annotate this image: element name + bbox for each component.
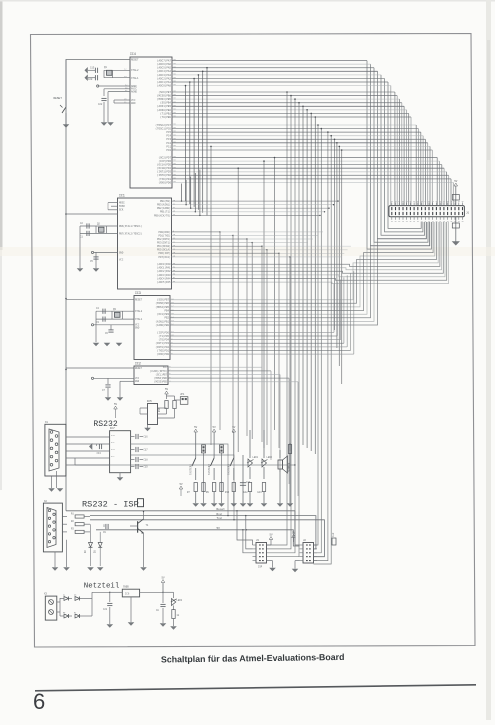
bus line Rxd <box>90 516 316 549</box>
DB9 shield grounds <box>51 476 53 488</box>
svg-text:(MOSI)PB5: (MOSI)PB5 <box>155 306 169 309</box>
svg-text:(TXD)PD1: (TXD)PD1 <box>159 177 172 181</box>
svg-text:IC5: IC5 <box>147 400 152 403</box>
svg-text:5V: 5V <box>179 483 183 486</box>
svg-text:40: 40 <box>406 221 408 223</box>
cap C21 <box>92 591 110 593</box>
wire taps PC rows descending bundle to J2 <box>314 125 319 545</box>
svg-text:5V: 5V <box>114 403 118 406</box>
IC5 left wires <box>140 407 148 409</box>
svg-text:IC4: IC4 <box>130 52 136 56</box>
resistor R20 column <box>289 443 291 455</box>
svg-text:(T1)PB1: (T1)PB1 <box>160 111 171 115</box>
svg-text:D7: D7 <box>74 611 76 614</box>
ISP section grounds <box>52 568 57 571</box>
svg-text:LED2: LED2 <box>267 456 273 459</box>
svg-text:MOSI: MOSI <box>119 202 125 205</box>
zener diodes D2 D3 <box>90 524 92 542</box>
svg-text:40: 40 <box>450 221 452 223</box>
wires DB9 to MAX232 <box>66 436 110 438</box>
wire RESET net from IC4 <box>66 60 130 108</box>
svg-text:PC5: PC5 <box>166 131 171 134</box>
svg-text:MISO: MISO <box>119 205 125 208</box>
svg-text:(INT0)PD2: (INT0)PD2 <box>155 346 169 349</box>
svg-text:RESET: RESET <box>135 299 143 302</box>
svg-text:C1+: C1+ <box>111 434 116 437</box>
svg-text:39: 39 <box>406 201 408 203</box>
svg-text:XTAL1: XTAL1 <box>131 77 139 80</box>
MAX232 ground <box>119 473 121 477</box>
crystal circuit Q1 C15 C20 <box>104 69 130 71</box>
svg-text:(ADC7)PA7: (ADC7)PA7 <box>157 59 171 63</box>
svg-text:VCC: VCC <box>119 258 124 261</box>
svg-text:39: 39 <box>462 201 464 203</box>
svg-text:(SCK)PB7: (SCK)PB7 <box>157 299 170 302</box>
svg-text:C2+: C2+ <box>111 448 116 451</box>
crystal Q1 <box>107 70 113 75</box>
svg-text:PD2(INT0): PD2(INT0) <box>157 238 171 241</box>
svg-text:C20: C20 <box>88 78 93 81</box>
svg-text:XTAL2: XTAL2 <box>135 310 143 313</box>
svg-text:5V: 5V <box>232 426 236 429</box>
svg-text:(SS)PB4: (SS)PB4 <box>160 101 171 105</box>
svg-text:C17: C17 <box>144 449 149 452</box>
svg-text:39: 39 <box>424 201 426 203</box>
svg-text:VCC: VCC <box>163 366 168 369</box>
jumper JP4 pins <box>220 445 224 453</box>
svg-text:E13: E13 <box>258 491 263 494</box>
svg-text:39: 39 <box>439 201 441 203</box>
svg-text:J1: J1 <box>466 211 470 214</box>
J2 ground <box>295 560 300 562</box>
svg-text:GND: GND <box>135 327 140 330</box>
bus line 5V <box>96 530 300 546</box>
svg-text:40: 40 <box>391 221 393 223</box>
svg-text:5V: 5V <box>454 180 458 183</box>
svg-text:PB2: PB2 <box>164 317 169 320</box>
svg-text:Reset: Reset <box>217 508 226 511</box>
schematic frame <box>31 34 476 648</box>
svg-text:(ADC4)PA4: (ADC4)PA4 <box>157 69 171 73</box>
svg-text:5V: 5V <box>194 426 198 429</box>
svg-text:(T0)PB0: (T0)PB0 <box>160 115 171 119</box>
svg-text:39: 39 <box>450 201 452 203</box>
svg-text:7805: 7805 <box>123 586 129 589</box>
svg-text:5V: 5V <box>217 527 221 530</box>
IC1 mid pins feeding down bundles <box>172 231 221 233</box>
MAX232 TTL side wires to bus <box>131 444 228 516</box>
svg-text:40: 40 <box>398 221 400 223</box>
svg-text:39: 39 <box>458 201 460 203</box>
svg-text:Netzteil: Netzteil <box>84 583 120 591</box>
svg-text:39: 39 <box>395 201 397 203</box>
svg-text:1x2: 1x2 <box>332 532 335 537</box>
J3 5V arrow <box>269 537 273 540</box>
IC IC5 optocoupler box <box>148 404 158 425</box>
svg-text:39: 39 <box>435 201 437 203</box>
svg-text:C18: C18 <box>144 459 149 462</box>
svg-text:(OC1B)PD4: (OC1B)PD4 <box>157 166 171 170</box>
svg-text:PD6(ICP): PD6(ICP) <box>158 252 171 255</box>
wire RESET vertical rail <box>65 60 67 511</box>
bus line Reset <box>66 511 300 545</box>
IC IC3 AT90S2313 box <box>134 296 170 360</box>
svg-text:5V: 5V <box>292 532 296 535</box>
switch TASTER2 <box>210 458 214 466</box>
cap C13 <box>96 444 98 446</box>
svg-text:40: 40 <box>428 221 430 223</box>
resistors R1 R2 R3 <box>62 516 67 518</box>
svg-text:PB1(T1): PB1(T1) <box>160 211 171 214</box>
svg-text:(SCL)PB7: (SCL)PB7 <box>156 373 168 376</box>
svg-text:(ICP)PD6: (ICP)PD6 <box>157 331 170 334</box>
switch TASTER1 <box>192 458 196 466</box>
5V arrow near IC2 <box>114 406 118 409</box>
connector X2 DB9 ISP <box>43 503 62 552</box>
svg-text:PC0: PC0 <box>166 149 171 152</box>
svg-text:(AIN1)PB1: (AIN1)PB1 <box>155 320 169 323</box>
resistor R7 <box>194 483 197 492</box>
svg-text:C13: C13 <box>97 452 102 455</box>
svg-text:40: 40 <box>413 221 415 223</box>
svg-text:XTAL1: XTAL1 <box>135 318 143 321</box>
svg-text:5V: 5V <box>165 388 169 391</box>
svg-text:(AIN0)PB0: (AIN0)PB0 <box>155 324 169 327</box>
connector J2 <box>303 543 314 564</box>
resistors R15 R16 pullups <box>165 391 169 394</box>
svg-text:GND: GND <box>119 251 124 254</box>
svg-text:40: 40 <box>421 221 423 223</box>
svg-text:RESET: RESET <box>135 367 143 370</box>
svg-text:C21: C21 <box>103 608 108 611</box>
svg-text:5V: 5V <box>269 534 273 537</box>
svg-text:39: 39 <box>421 201 423 203</box>
IC1 top pins rising to IC4 rows and right to taps <box>172 200 339 202</box>
J1 ground wire below <box>455 217 457 242</box>
svg-text:(ADC3)PA3: (ADC3)PA3 <box>157 274 171 277</box>
svg-text:TASTER2: TASTER2 <box>208 464 211 475</box>
5V arrows above switches <box>194 429 198 432</box>
svg-text:PC4: PC4 <box>166 135 171 138</box>
svg-text:40: 40 <box>443 221 445 223</box>
svg-text:(AIN0)PB2: (AIN0)PB2 <box>157 108 171 112</box>
svg-text:PC3: PC3 <box>166 138 171 141</box>
IC IC6 7805 regulator <box>122 589 139 597</box>
svg-text:PD3(INT1): PD3(INT1) <box>157 242 171 245</box>
svg-text:XTAL2: XTAL2 <box>131 69 139 72</box>
svg-text:PD0(RXD): PD0(RXD) <box>158 231 171 234</box>
svg-text:(MOSI)PB5: (MOSI)PB5 <box>157 97 171 101</box>
svg-text:39: 39 <box>402 201 404 203</box>
svg-text:40: 40 <box>409 221 411 223</box>
svg-text:40: 40 <box>462 221 464 223</box>
svg-text:IC3: IC3 <box>135 291 141 295</box>
transistor T1 <box>137 521 139 533</box>
IC3 bottom pin wires rising along ring verticals <box>170 331 334 333</box>
connector X1 DB9 RS232 <box>45 424 66 476</box>
svg-text:LED3: LED3 <box>177 599 183 602</box>
svg-text:39: 39 <box>432 201 434 203</box>
IC IC7 MAX232 box <box>110 431 131 473</box>
svg-text:Txd: Txd <box>217 516 222 520</box>
svg-text:LED1: LED1 <box>253 456 259 459</box>
svg-text:40: 40 <box>417 221 419 223</box>
cap C5 on IC1 VCC <box>91 251 93 253</box>
wire taps PA rows down to IC1 top pins <box>185 86 187 202</box>
svg-text:5V: 5V <box>213 426 217 429</box>
J1 5V feed and box <box>454 183 458 186</box>
svg-text:C2-: C2- <box>111 455 115 458</box>
IC1 bottom pins to outer rings <box>172 222 440 266</box>
svg-text:39: 39 <box>447 201 449 203</box>
svg-text:39: 39 <box>417 201 419 203</box>
svg-text:RESET: RESET <box>131 58 139 61</box>
IC3 left circuit crystal <box>66 299 134 301</box>
svg-text:SUMMER: SUMMER <box>288 462 291 472</box>
svg-text:40: 40 <box>439 221 441 223</box>
svg-text:(T0)PD4: (T0)PD4 <box>158 339 169 342</box>
J3 ground <box>267 560 273 562</box>
svg-text:(RXD)PD0: (RXD)PD0 <box>157 353 170 356</box>
svg-text:40: 40 <box>458 221 460 223</box>
svg-text:(T1)PD5: (T1)PD5 <box>158 335 169 338</box>
svg-text:PB7(XTAL2/TOSC2): PB7(XTAL2/TOSC2) <box>119 232 143 235</box>
bus line Txd <box>90 520 324 557</box>
svg-text:JP1: JP1 <box>180 393 185 396</box>
svg-text:(TOSC2)PC7: (TOSC2)PC7 <box>155 123 171 127</box>
IC1 left ISP pin stubs <box>108 202 118 204</box>
svg-text:(MISO)PB6: (MISO)PB6 <box>155 302 169 305</box>
caps C16 C17 C18 C19 charge pump <box>131 436 135 438</box>
regulator output to 5V <box>140 591 163 593</box>
J2 5V arrow <box>292 535 296 538</box>
svg-text:C22: C22 <box>98 103 103 106</box>
svg-text:39: 39 <box>443 201 445 203</box>
svg-text:(TXD)PD1: (TXD)PD1 <box>157 349 170 352</box>
wire DTR line to reset net <box>75 464 295 466</box>
cap C9 <box>103 524 105 527</box>
ground below reset switch <box>63 125 68 128</box>
svg-text:(MISO)PB5: (MISO)PB5 <box>154 381 167 384</box>
buzzer SUMMER <box>279 450 281 458</box>
IC IC2 box <box>134 366 168 385</box>
svg-text:(TOSC1)PC6: (TOSC1)PC6 <box>155 127 171 131</box>
svg-text:R13: R13 <box>225 491 230 494</box>
J1 pin ticks <box>391 207 393 210</box>
svg-text:PB6(XTAL1/TOSC1): PB6(XTAL1/TOSC1) <box>119 225 143 228</box>
jumper JP1 <box>180 397 188 405</box>
connector J3 <box>256 543 267 564</box>
svg-text:40: 40 <box>447 221 449 223</box>
svg-text:(ADC2)PA2: (ADC2)PA2 <box>157 76 171 80</box>
svg-text:C15: C15 <box>90 66 95 69</box>
svg-text:(ADC5)PA5: (ADC5)PA5 <box>157 281 171 284</box>
svg-text:(ADC6)PA6: (ADC6)PA6 <box>157 62 171 66</box>
svg-text:PB4(SS): PB4(SS) <box>160 200 171 203</box>
AREF node and C22 <box>99 85 130 87</box>
svg-text:PB0(XCK/T0): PB0(XCK/T0) <box>154 214 171 217</box>
LED3 power indicator <box>163 591 174 593</box>
switch TASTER3 <box>230 458 234 466</box>
svg-text:(INT1)PD3: (INT1)PD3 <box>155 342 169 345</box>
svg-text:39: 39 <box>391 201 393 203</box>
svg-text:AGND: AGND <box>131 91 138 94</box>
IC2 left wires <box>66 367 134 369</box>
svg-text:(INT0)PD2: (INT0)PD2 <box>157 173 171 177</box>
IC IC1 mega16 box <box>118 198 172 289</box>
IC4 right pin wires to bus <box>172 60 367 62</box>
svg-text:PD7(OC2): PD7(OC2) <box>158 256 171 259</box>
svg-text:C19: C19 <box>144 466 149 469</box>
svg-text:(OC2)PD7: (OC2)PD7 <box>159 155 172 159</box>
connector X3 power <box>45 596 57 620</box>
svg-text:5V: 5V <box>161 577 165 580</box>
svg-text:RESET: RESET <box>54 97 63 100</box>
svg-text:(RXD)PD0: (RXD)PD0 <box>159 180 172 184</box>
svg-text:40: 40 <box>402 221 404 223</box>
connector J1 40 pin header <box>389 206 465 217</box>
svg-text:(ADC1)PA1: (ADC1)PA1 <box>157 80 171 84</box>
svg-text:(ADC0)PA0: (ADC0)PA0 <box>157 263 171 266</box>
svg-text:TASTER1: TASTER1 <box>190 464 193 475</box>
svg-text:IC2: IC2 <box>135 362 141 366</box>
jumper JP3 pins <box>202 445 206 453</box>
svg-text:(SCK)PB7: (SCK)PB7 <box>159 90 172 94</box>
footer rule <box>35 685 476 691</box>
svg-text:GND: GND <box>135 380 140 383</box>
IC IC4 ATmega main box <box>130 57 172 188</box>
svg-text:39: 39 <box>398 201 400 203</box>
svg-text:PC1: PC1 <box>166 145 171 148</box>
grounds below AREF caps <box>101 123 106 126</box>
svg-text:Rxd: Rxd <box>217 512 222 516</box>
svg-text:IC1: IC1 <box>119 194 125 198</box>
svg-text:PB4: PB4 <box>164 310 169 313</box>
ground TASTER1 <box>193 504 198 507</box>
cap C14 column <box>242 455 244 503</box>
svg-text:(ICP)PD6: (ICP)PD6 <box>159 159 172 163</box>
wire extra taps to component columns <box>210 146 212 445</box>
IC4 VCC GND pins <box>114 99 130 101</box>
svg-text:40: 40 <box>395 221 397 223</box>
svg-text:(MISO)PB6: (MISO)PB6 <box>157 94 171 98</box>
svg-text:(INT1)PD3: (INT1)PD3 <box>157 170 171 174</box>
svg-text:IC7: IC7 <box>110 427 115 430</box>
svg-text:E12: E12 <box>244 491 249 494</box>
svg-text:(ADC2)PA2: (ADC2)PA2 <box>157 270 171 273</box>
svg-text:ISP: ISP <box>258 566 263 569</box>
IC2 right pin wires <box>168 366 262 368</box>
resistor R21 LED series <box>173 606 175 611</box>
svg-text:6: 6 <box>33 689 45 714</box>
svg-text:(CLKO)(OPTO): (CLKO)(OPTO) <box>150 370 168 373</box>
svg-text:SCK: SCK <box>119 209 124 212</box>
svg-text:RS232 - ISP: RS232 - ISP <box>82 500 139 510</box>
svg-text:(ADC0)PA0: (ADC0)PA0 <box>157 84 171 88</box>
J3 feed wires from bus <box>237 511 253 545</box>
LED LED2 with resistor E13 <box>263 430 265 458</box>
svg-text:39: 39 <box>413 201 415 203</box>
LED LED1 with resistor E12 <box>249 430 251 458</box>
svg-text:(MOSI)PB6: (MOSI)PB6 <box>154 377 167 380</box>
bridge diodes D4 D5 D6 D7 <box>57 601 60 603</box>
svg-text:(ADC5)PA5: (ADC5)PA5 <box>157 66 171 70</box>
5V arrow near jumper row <box>179 486 183 489</box>
wire taps PB rows descending bundle to J3 right <box>267 92 288 545</box>
svg-text:PD4(OC1B): PD4(OC1B) <box>157 245 171 248</box>
svg-text:C16: C16 <box>144 436 149 439</box>
svg-text:40: 40 <box>432 221 434 223</box>
cap C8 output <box>162 592 164 603</box>
IC3 right pin wires rising to mid rings <box>170 222 438 300</box>
IC1 left circuit crystal caps <box>80 225 118 227</box>
svg-text:(AIN1)PB3: (AIN1)PB3 <box>157 104 171 108</box>
svg-text:39: 39 <box>409 201 411 203</box>
svg-text:PB2(AIN0): PB2(AIN0) <box>157 207 171 210</box>
svg-text:40: 40 <box>435 221 437 223</box>
svg-text:GND: GND <box>131 102 136 105</box>
svg-text:40: 40 <box>424 221 426 223</box>
svg-text:(ADC3)PA3: (ADC3)PA3 <box>157 73 171 77</box>
svg-text:C1-: C1- <box>111 441 115 444</box>
svg-text:(OC1)PB3: (OC1)PB3 <box>157 313 170 316</box>
svg-text:39: 39 <box>428 201 430 203</box>
svg-text:(OC1A)PD5: (OC1A)PD5 <box>157 163 171 167</box>
svg-text:IC6: IC6 <box>125 593 130 596</box>
